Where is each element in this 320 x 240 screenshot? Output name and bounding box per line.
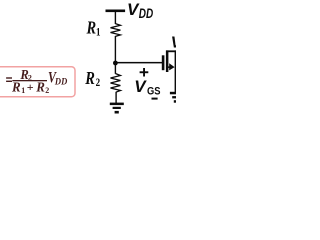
transistor Q1: gate bar xyxy=(162,55,165,70)
label V (cropped, top right) xyxy=(171,35,183,52)
svg-text:V: V xyxy=(171,35,176,52)
resistor R2 zigzag xyxy=(111,74,121,93)
label VGS xyxy=(134,77,147,96)
svg-text:1: 1 xyxy=(21,86,25,95)
node dot xyxy=(113,61,118,66)
svg-text:R: R xyxy=(86,17,97,38)
transistor Q1: right vertical wire xyxy=(175,50,177,92)
svg-text:R: R xyxy=(11,79,21,94)
VDD power rail bar xyxy=(106,10,126,13)
formula: VDD xyxy=(48,70,57,87)
svg-text:2: 2 xyxy=(45,86,49,95)
svg-text:1: 1 xyxy=(96,27,101,39)
label R2 xyxy=(84,67,95,88)
wire VDD bar to R1 xyxy=(115,12,116,24)
ground (right, cropped) xyxy=(170,92,177,95)
plus sign of VGS xyxy=(140,71,149,73)
formula: denominator R1 + R2 xyxy=(11,79,21,94)
formula: fraction bar xyxy=(12,80,47,81)
label VDD xyxy=(127,0,140,19)
transistor Q1: channel bar xyxy=(166,50,169,72)
transistor Q1: drain lead xyxy=(166,50,176,52)
gate wire xyxy=(115,62,162,64)
formula: = sign xyxy=(6,77,12,78)
svg-text:+: + xyxy=(27,80,34,94)
svg-text:GS: GS xyxy=(147,86,161,98)
formula: numerator R2 xyxy=(19,67,29,82)
svg-text:V: V xyxy=(134,77,147,96)
svg-text:DD: DD xyxy=(139,5,154,21)
label R1 xyxy=(86,17,97,38)
wire R2 to ground xyxy=(115,92,116,103)
svg-text:DD: DD xyxy=(54,76,68,87)
resistor R1 zigzag xyxy=(111,24,121,37)
transistor Q1: source lead with arrow xyxy=(168,66,171,68)
svg-text:R: R xyxy=(35,79,45,94)
svg-text:2: 2 xyxy=(96,77,101,89)
wire node to R2 xyxy=(115,63,116,74)
formula box (cropped at left edge) xyxy=(0,67,75,97)
wire R1 to node xyxy=(115,36,116,62)
minus sign of VGS xyxy=(152,98,158,100)
svg-text:R: R xyxy=(84,67,95,88)
ground (left) xyxy=(110,103,124,106)
